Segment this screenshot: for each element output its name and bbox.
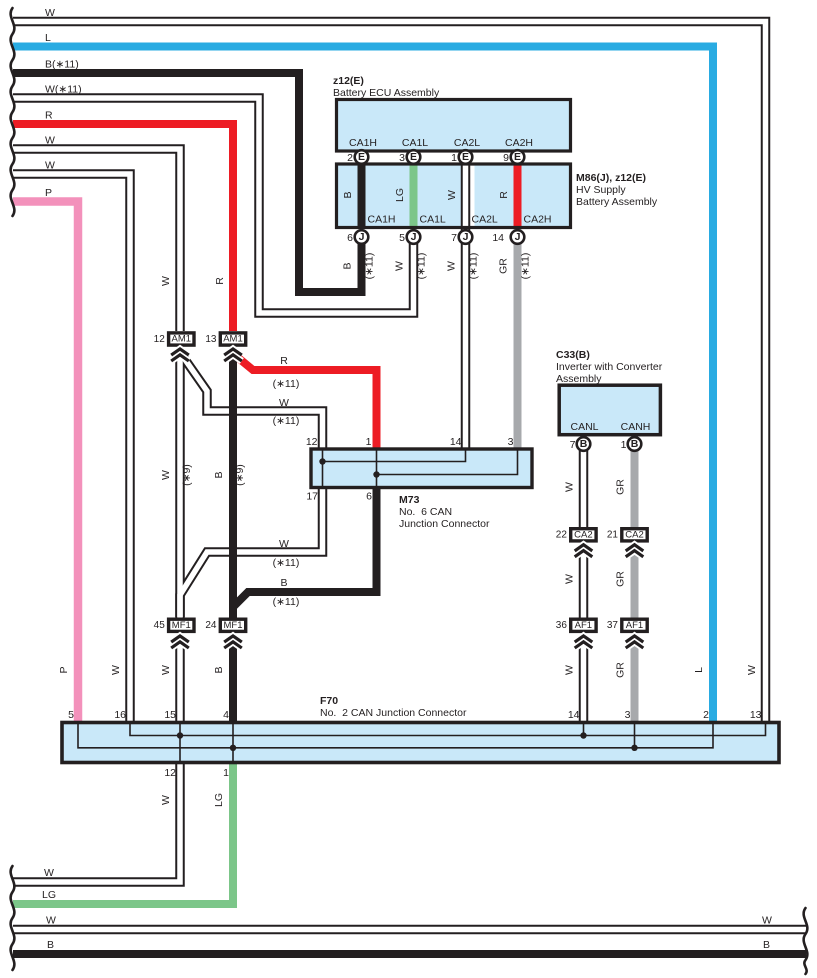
wire B bottom full row (13, 950, 806, 958)
connector AF1 pin 37 box (622, 619, 647, 631)
node F70 pin4 junction (230, 745, 236, 751)
svg-text:W: W (45, 160, 55, 172)
svg-text:6: 6 (366, 491, 372, 503)
svg-text:Junction Connector: Junction Connector (399, 518, 490, 530)
ECU box border (337, 100, 571, 152)
svg-text:21: 21 (607, 530, 619, 541)
svg-text:B: B (342, 262, 354, 269)
svg-text:W: W (279, 538, 289, 550)
svg-text:F70: F70 (320, 695, 338, 707)
svg-text:12: 12 (306, 436, 318, 448)
svg-text:14: 14 (492, 232, 504, 244)
svg-text:W: W (446, 190, 458, 200)
svg-text:W: W (44, 867, 54, 879)
svg-text:W: W (160, 276, 172, 286)
svg-text:AF1: AF1 (626, 620, 643, 631)
svg-text:CA1L: CA1L (402, 137, 428, 149)
wire B(*11) M73 pin 6 to MF1-24 (233, 489, 377, 618)
svg-text:36: 36 (556, 620, 568, 631)
HV box border (337, 164, 571, 228)
svg-text:E: E (410, 151, 417, 163)
pin 1 E circle (459, 150, 473, 164)
pin 2 E circle (355, 150, 369, 164)
wire B(*11) to HV pin 6 (13, 73, 362, 292)
node F70 pin3 junction (631, 745, 637, 751)
chevron below CA2-21 (626, 545, 644, 557)
wire W(*11) AM1-12 to M73 pin 12 (182, 355, 323, 449)
svg-text:R: R (45, 110, 53, 122)
svg-text:GR: GR (615, 479, 627, 495)
svg-text:17: 17 (306, 491, 318, 503)
svg-text:LG: LG (42, 889, 56, 901)
wire GR HV pin 14 to M73 pin 3 (514, 229, 522, 448)
svg-text:CA1L: CA1L (420, 214, 446, 226)
svg-text:(∗11): (∗11) (273, 378, 300, 390)
svg-text:13: 13 (750, 709, 762, 721)
svg-text:W: W (564, 482, 576, 492)
wire W MF1-45 to F70 pin 15 (175, 637, 185, 721)
wire B MF1-24 to F70 pin 4 (229, 637, 237, 721)
svg-text:J: J (359, 231, 365, 243)
svg-text:W: W (160, 795, 172, 805)
svg-text:W: W (564, 574, 576, 584)
wire LG inside HV CA1L (410, 150, 418, 226)
svg-text:14: 14 (450, 436, 462, 448)
chevron below MF1-24 (224, 636, 242, 648)
wire W to AM1 pin 12 (13, 149, 180, 331)
svg-text:5: 5 (399, 232, 405, 244)
svg-text:z12(E): z12(E) (333, 75, 364, 87)
svg-text:CANH: CANH (621, 421, 651, 433)
pin 6 J circle (355, 230, 369, 244)
chevron below AF1-36 (575, 636, 593, 648)
svg-text:B(∗11): B(∗11) (45, 59, 79, 71)
pin circles (355, 150, 642, 451)
node F70 pin14 junction (580, 732, 586, 738)
pin number labels (68, 152, 761, 779)
svg-text:W: W (394, 261, 406, 271)
wire M73 pin12-17 vertical (322, 449, 324, 488)
svg-text:W: W (160, 665, 172, 675)
svg-text:Assembly: Assembly (556, 373, 602, 385)
svg-text:(∗9): (∗9) (234, 464, 246, 486)
wire B inside HV CA1H (358, 150, 366, 226)
svg-text:AM1: AM1 (223, 334, 243, 345)
svg-text:No. 6 CAN: No. 6 CAN (399, 506, 452, 518)
chevron below CA2-22 (575, 545, 593, 557)
svg-text:W: W (746, 665, 758, 675)
svg-text:E: E (514, 151, 521, 163)
svg-text:GR: GR (498, 258, 510, 274)
wire F70 bus pins 16-15-14-13 (130, 721, 766, 736)
svg-text:CANL: CANL (570, 421, 598, 433)
svg-text:M86(J), z12(E): M86(J), z12(E) (576, 172, 646, 184)
chevron below AM1-12 (171, 349, 189, 361)
connector box name labels (172, 334, 644, 631)
F70 box border (62, 723, 779, 763)
svg-text:R: R (498, 191, 510, 199)
svg-text:7: 7 (451, 232, 457, 244)
svg-text:W: W (45, 7, 55, 19)
wire W AF1 36 to F70 pin 14 (579, 637, 589, 721)
HV box fill U2 (337, 164, 571, 228)
svg-text:CA2: CA2 (625, 530, 643, 541)
svg-text:45: 45 (154, 620, 166, 631)
svg-text:GR: GR (615, 571, 627, 587)
svg-text:24: 24 (205, 620, 217, 631)
svg-text:(∗11): (∗11) (273, 557, 300, 569)
junction dots (177, 458, 638, 751)
svg-text:B: B (213, 666, 225, 673)
pin 14 J circle (511, 230, 525, 244)
svg-text:1: 1 (223, 767, 229, 779)
wire B AM1-13 to MF1-24 (229, 350, 237, 619)
wire P to F70 pin 5 (13, 202, 78, 722)
svg-text:LG: LG (394, 188, 406, 202)
wire W bottom full row (13, 925, 806, 935)
wire W(*11) to HV pin 5 (13, 98, 414, 313)
chevron below AF1-37 (626, 636, 644, 648)
box fills (62, 100, 779, 763)
svg-text:W: W (762, 915, 772, 927)
left row wire name labels (45, 7, 82, 199)
pin 5 J circle (407, 230, 421, 244)
svg-text:(∗11): (∗11) (273, 415, 300, 427)
svg-text:P: P (58, 666, 70, 673)
left edge break wave bottom (11, 866, 15, 970)
svg-text:HV Supply: HV Supply (576, 184, 626, 196)
wire R inside HV CA2H (514, 150, 522, 226)
svg-text:E: E (462, 151, 469, 163)
HV terminal labels (368, 214, 552, 226)
chevron white halos (171, 349, 643, 648)
svg-text:J: J (411, 231, 417, 243)
ECU terminal labels (349, 137, 533, 149)
svg-text:CA2L: CA2L (454, 137, 480, 149)
svg-text:4: 4 (223, 709, 229, 721)
node M73 bus2 junction (373, 471, 379, 477)
wire R(*11) AM1-13 to M73 pin 1 (236, 356, 377, 448)
svg-text:B: B (631, 438, 639, 450)
wire F70 pin4-1 vertical (232, 721, 234, 764)
pin 1 B circle (628, 437, 642, 451)
svg-text:16: 16 (114, 709, 126, 721)
svg-text:6: 6 (347, 232, 353, 244)
C33 box fill U3 (559, 385, 660, 435)
connector boxes (169, 333, 648, 632)
svg-text:15: 15 (164, 709, 176, 721)
svg-text:(∗11): (∗11) (364, 253, 376, 280)
svg-text:J: J (515, 231, 521, 243)
svg-text:GR: GR (615, 662, 627, 678)
svg-text:3: 3 (508, 436, 514, 448)
bottom row wire name labels (42, 867, 772, 951)
wire F70 pin 3 stub (634, 721, 636, 748)
svg-text:L: L (45, 32, 51, 44)
svg-text:W: W (446, 261, 458, 271)
pin circle letters (358, 151, 639, 450)
wire F70 pin 14 stub (583, 721, 585, 736)
svg-text:Inverter with Converter: Inverter with Converter (556, 361, 663, 373)
wire W(*11) M73 pin 17 to MF1-45 (180, 489, 323, 617)
left edge break wave top (11, 8, 15, 216)
wire W C33 CANL to CA2 22 (579, 438, 589, 527)
wire M73 pin1-6 vertical (376, 449, 378, 488)
HV white band (461, 166, 475, 226)
pin 7 J circle (459, 230, 473, 244)
svg-text:B: B (580, 438, 588, 450)
node M73 bus1 junction (319, 458, 325, 464)
svg-text:12: 12 (164, 767, 176, 779)
svg-text:C33(B): C33(B) (556, 349, 590, 361)
M73 interior lines (323, 449, 518, 488)
svg-text:M73: M73 (399, 494, 420, 506)
rotated wire color labels (58, 188, 758, 807)
wire GR CA2 21 to AF1 37 (631, 546, 639, 618)
connector CA2 pin 22 box (571, 529, 596, 541)
svg-text:14: 14 (568, 709, 580, 721)
svg-text:(∗11): (∗11) (416, 253, 428, 280)
svg-text:2: 2 (347, 152, 353, 164)
svg-text:CA2L: CA2L (472, 214, 498, 226)
chevron below MF1-45 (171, 636, 189, 648)
wire R to AM1 pin 13 (13, 124, 233, 331)
svg-text:B: B (47, 939, 54, 951)
svg-text:E: E (358, 151, 365, 163)
svg-text:B: B (763, 939, 770, 951)
svg-text:P: P (45, 187, 52, 199)
svg-text:CA2H: CA2H (505, 137, 533, 149)
svg-text:12: 12 (154, 334, 166, 345)
connector MF1 pin 24 box (220, 619, 245, 631)
svg-text:W: W (110, 665, 122, 675)
svg-text:R: R (280, 355, 288, 367)
component name labels (320, 75, 663, 719)
svg-text:MF1: MF1 (172, 620, 191, 631)
svg-text:W(∗11): W(∗11) (45, 84, 82, 96)
svg-text:No. 2 CAN Junction Connector: No. 2 CAN Junction Connector (320, 707, 467, 719)
svg-text:J: J (463, 231, 469, 243)
svg-text:(∗11): (∗11) (468, 253, 480, 280)
connector AM1 pin 12 box (169, 333, 194, 345)
svg-text:Battery Assembly: Battery Assembly (576, 196, 658, 208)
wire W HV CA2L through pin 7 to M73 pin 14 (461, 150, 471, 448)
wire L blue top row to F70 pin 2 (13, 47, 713, 722)
wire W top row to F70 pin 13 (13, 22, 766, 722)
svg-text:13: 13 (205, 334, 217, 345)
svg-text:AM1: AM1 (172, 334, 192, 345)
svg-text:W: W (46, 915, 56, 927)
connector AF1 pin 36 box (571, 619, 596, 631)
wire W CA2 22 to AF1 36 (579, 546, 589, 618)
connector MF1 pin 45 box (169, 619, 194, 631)
pin 9 E circle (511, 150, 525, 164)
ECU box fill U1 (337, 100, 571, 152)
wire GR C33 CANH to CA2 21 (631, 438, 639, 527)
svg-text:LG: LG (213, 793, 225, 807)
wire W F70 pin 12 to left edge (13, 764, 180, 882)
wire M73 bus to pin 14 (323, 449, 466, 462)
wire F70 bus pins 5-4-3-2 (78, 721, 713, 748)
svg-text:B: B (342, 191, 354, 198)
pin 7 B circle (577, 437, 591, 451)
svg-text:W: W (45, 135, 55, 147)
wire F70 pin15-12 vertical (179, 721, 181, 764)
svg-text:9: 9 (503, 152, 509, 164)
connector AM1 pin 13 box (220, 333, 245, 345)
svg-text:2: 2 (703, 709, 709, 721)
svg-text:1: 1 (366, 436, 372, 448)
svg-text:37: 37 (607, 620, 619, 631)
node F70 pin15 junction (177, 732, 183, 738)
svg-text:B: B (213, 471, 225, 478)
M73 box border (311, 449, 532, 488)
connector CA2 pin 21 box (622, 529, 647, 541)
C33 box border (559, 385, 660, 435)
svg-text:AF1: AF1 (575, 620, 592, 631)
wire M73 bus to pin 3 (377, 449, 518, 475)
svg-text:1: 1 (621, 439, 627, 451)
box borders (62, 100, 779, 763)
svg-text:MF1: MF1 (224, 620, 243, 631)
chevron below AM1-13 (224, 349, 242, 361)
svg-text:3: 3 (399, 152, 405, 164)
svg-text:3: 3 (625, 709, 631, 721)
svg-text:CA1H: CA1H (349, 137, 377, 149)
svg-text:1: 1 (451, 152, 457, 164)
pin 3 E circle (407, 150, 421, 164)
svg-text:(∗11): (∗11) (273, 596, 300, 608)
svg-text:CA2: CA2 (574, 530, 592, 541)
F70 interior lines (78, 721, 766, 764)
svg-text:CA2H: CA2H (524, 214, 552, 226)
svg-text:R: R (214, 277, 226, 285)
svg-text:(∗11): (∗11) (520, 253, 532, 280)
svg-text:W: W (564, 665, 576, 675)
svg-text:L: L (693, 667, 705, 673)
wire LG F70 pin 1 to left edge (13, 764, 233, 904)
svg-text:Battery ECU Assembly: Battery ECU Assembly (333, 87, 440, 99)
svg-text:7: 7 (570, 439, 576, 451)
wire W AM1-12 to MF1-45 (175, 351, 185, 618)
wire W to F70 pin 16 (13, 174, 130, 721)
wire GR AF1 37 to F70 pin 3 (631, 637, 639, 721)
mid horizontal wire labels (273, 355, 300, 608)
F70 box fill (62, 723, 779, 763)
M73 box fill (311, 449, 532, 488)
svg-text:22: 22 (556, 530, 568, 541)
C33 terminal labels (570, 421, 650, 433)
svg-text:CA1H: CA1H (368, 214, 396, 226)
svg-text:W: W (279, 397, 289, 409)
svg-text:5: 5 (68, 709, 74, 721)
svg-text:B: B (280, 577, 287, 589)
right edge break wave bottom (804, 908, 808, 974)
svg-text:(∗9): (∗9) (181, 464, 193, 486)
svg-text:W: W (160, 470, 172, 480)
